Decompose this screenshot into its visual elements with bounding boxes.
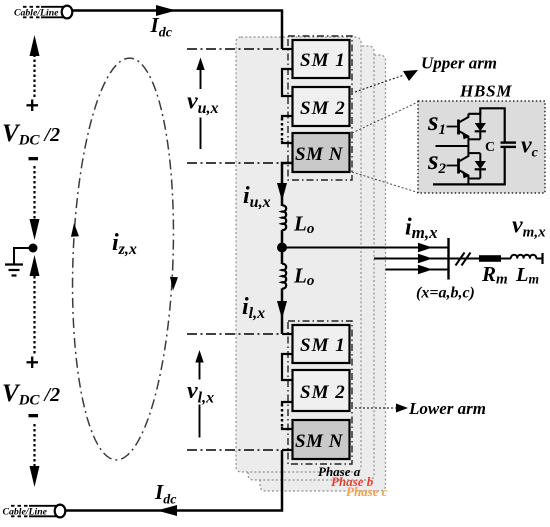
gate lead s2 bbox=[447, 165, 458, 167]
wire: bottom rail to cap bottom bbox=[433, 147, 505, 184]
wire: top DC bus bbox=[73, 11, 283, 50]
wire: S1 collector bus to cap top bbox=[468, 108, 504, 142]
loop arrow up (left side) bbox=[70, 223, 79, 237]
wire: SM1 to SM2 link bbox=[282, 69, 293, 96]
inductor L_m bbox=[511, 255, 536, 259]
arrow I_dc (top, pointing right) bbox=[156, 5, 176, 16]
upper arm dashed enclosure bbox=[288, 36, 352, 180]
ground bbox=[5, 248, 29, 276]
circulating current loop i_z,x (dash-dot ellipse) bbox=[66, 56, 180, 461]
submodule SM2 (upper arm) bbox=[293, 87, 350, 126]
arrowhead Lower arm bbox=[396, 404, 408, 413]
HBSM inset box bbox=[418, 101, 545, 193]
wire: AC output line 3 (phase c) bbox=[386, 269, 449, 271]
svg-text:SM N: SM N bbox=[295, 431, 344, 452]
wire: AC output line 1 (phase a) bbox=[282, 247, 449, 249]
wire: lower coil to lower arm bbox=[281, 288, 284, 334]
pointer line to Lower arm bbox=[355, 407, 396, 409]
label + (upper) bbox=[27, 100, 39, 112]
wire: lower SM2 to SMN link (dotted continuation) bbox=[282, 402, 293, 429]
submodule SM2 (lower arm) bbox=[293, 370, 350, 411]
wire: lower SM1 to SM2 link bbox=[282, 354, 293, 380]
collector lead s2 bbox=[459, 153, 469, 161]
load terminal tick bbox=[541, 253, 543, 264]
arrow i_u,x (down) bbox=[277, 183, 287, 201]
wire: lower SMN bottom terminal bbox=[282, 449, 293, 451]
IGBT S1 (upper) bbox=[447, 114, 469, 140]
label + (lower) bbox=[27, 357, 39, 369]
lower arm dashed enclosure bbox=[288, 321, 352, 464]
svg-text:SM 2: SM 2 bbox=[300, 382, 346, 403]
wire: SMN bottom terminal to arm bbox=[282, 163, 293, 206]
phase a enclosure bbox=[236, 37, 361, 472]
svg-text:Cable/Line: Cable/Line bbox=[3, 507, 48, 517]
arrow I_dc (bottom, pointing left) bbox=[157, 505, 177, 516]
arrow on output line 1 bbox=[418, 243, 433, 253]
submodule SM1 (upper arm) bbox=[293, 40, 350, 78]
svg-text:Upper arm: Upper arm bbox=[421, 54, 497, 73]
dash-dot line lower arm top bbox=[187, 333, 282, 335]
arrowhead Upper arm bbox=[403, 70, 418, 81]
bottom cable/line symbol bbox=[3, 505, 66, 518]
svg-text:SM 2: SM 2 bbox=[300, 98, 346, 119]
svg-text:SM 1: SM 1 bbox=[300, 50, 346, 71]
dash-dot line upper arm top bbox=[187, 48, 282, 50]
svg-text:Lower arm: Lower arm bbox=[408, 399, 486, 418]
svg-text:HBSM: HBSM bbox=[459, 82, 512, 101]
dash-dot line lower arm bottom bbox=[187, 449, 282, 451]
wire: coil to node bbox=[281, 230, 284, 248]
upper V_DC/2 source: arrow up bbox=[30, 35, 40, 97]
wire: node to lower coil bbox=[281, 248, 284, 265]
svg-text:SM 1: SM 1 bbox=[300, 335, 346, 356]
upper V_DC/2 source: arrow down bbox=[30, 166, 40, 240]
emitter lead s2 with arrow bbox=[459, 170, 469, 184]
arrow i_l,x (down) bbox=[277, 301, 287, 319]
zoom construction line (SMN top to HBSM) bbox=[352, 102, 418, 133]
loop arrow down (right side) bbox=[169, 277, 178, 291]
submodule SMN (upper arm) bbox=[293, 133, 350, 172]
midpoint node bbox=[29, 244, 38, 253]
three-phase slash marks bbox=[456, 253, 471, 266]
v_l,x measurement arrow bbox=[195, 350, 203, 438]
collector lead s1 bbox=[459, 114, 469, 123]
wire: inductor to terminal bbox=[536, 258, 542, 260]
bus bar bbox=[447, 238, 449, 280]
resistor R_m bbox=[479, 255, 501, 262]
pointer line to Upper arm bbox=[355, 75, 404, 92]
svg-text:C: C bbox=[485, 140, 495, 155]
wire: S2 collector bus bbox=[468, 152, 480, 154]
label - (upper) bbox=[29, 157, 39, 160]
wire: into SM1 top terminal bbox=[282, 48, 293, 50]
wire: S2 emitter junction bbox=[468, 178, 480, 180]
node: phase midpoint junction bbox=[277, 243, 287, 253]
antiparallel diode D2 bbox=[475, 153, 486, 178]
lower V_DC/2 source: arrow down bbox=[30, 424, 40, 487]
submodule SM1 (lower arm) bbox=[293, 325, 350, 363]
gate bar s1 bbox=[457, 120, 460, 135]
lower V_DC/2 source: arrow up bbox=[30, 255, 40, 356]
gate lead s1 bbox=[447, 126, 458, 128]
arrow on output line 2 bbox=[418, 254, 433, 264]
svg-text:Cable/Line: Cable/Line bbox=[14, 8, 59, 18]
top cable/line symbol bbox=[14, 6, 72, 19]
antiparallel diode D1 bbox=[475, 114, 486, 140]
zoom construction line (SMN bottom to HBSM) bbox=[352, 172, 418, 193]
dash-dot line upper arm bottom bbox=[187, 162, 282, 164]
wire: midpoint output bbox=[436, 145, 469, 147]
IGBT S2 (lower) bbox=[447, 153, 469, 184]
svg-text:Phase c: Phase c bbox=[346, 484, 388, 499]
phase c enclosure bbox=[260, 55, 386, 491]
v_u,x measurement arrow bbox=[196, 58, 204, 150]
label - (lower) bbox=[29, 414, 39, 417]
wire: SM2 to SMN link (dotted continuation) bbox=[282, 116, 293, 143]
wire: bar to load bbox=[449, 258, 480, 260]
capacitor C bbox=[501, 143, 517, 147]
svg-text:SM N: SM N bbox=[295, 144, 344, 165]
wire: AC output line 2 (phase b) bbox=[374, 258, 449, 260]
emitter lead s1 with arrow bbox=[459, 131, 469, 139]
wire: bottom DC bus bbox=[66, 450, 282, 511]
inductor L_o (lower) bbox=[282, 264, 286, 289]
wire: resistor to inductor bbox=[501, 258, 511, 260]
submodule SMN (lower arm) bbox=[293, 420, 350, 459]
wire: into lower SM1 top terminal bbox=[282, 333, 293, 335]
wire: S1 emitter junction bbox=[468, 138, 480, 140]
inductor L_o (upper) bbox=[282, 205, 286, 230]
phase b enclosure bbox=[248, 46, 374, 480]
gate bar s2 bbox=[457, 159, 460, 174]
svg-text:(x=a,b,c): (x=a,b,c) bbox=[416, 285, 475, 302]
arrow on output line 3 bbox=[418, 265, 433, 275]
wire: midpoint vertical bbox=[467, 139, 469, 153]
